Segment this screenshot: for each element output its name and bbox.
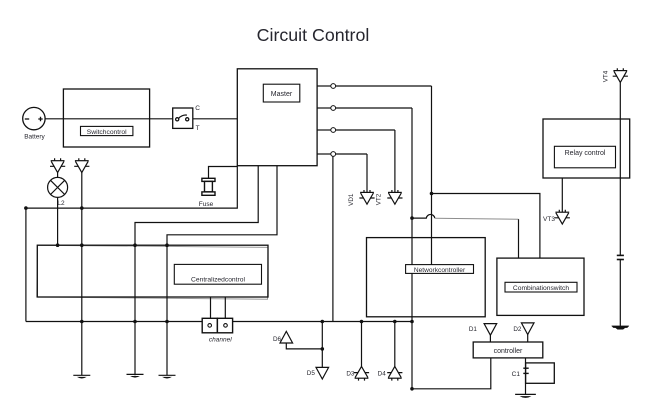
node dot bus D4 (393, 320, 397, 324)
node dot bus 167 (165, 320, 169, 324)
wire bus right section (233, 321, 412, 323)
diode D5 (316, 367, 329, 379)
svg-text:D2: D2 (513, 326, 522, 333)
wire port1 vertical to Networkcontroller (431, 86, 433, 265)
wire diode X2 chain to ground (81, 173, 83, 376)
svg-text:C: C (195, 105, 200, 112)
capacitor on VT4 line (617, 255, 624, 259)
connector channel pins (208, 324, 227, 328)
node dot far left corner (24, 206, 28, 210)
box Centralizedcontrol rotated gray ghost (37, 245, 268, 299)
pin stub port4 (317, 153, 331, 155)
wire master corner down-left to far left drop (26, 166, 237, 322)
wire port2 vertical long through Networkcontroller (411, 108, 413, 389)
svg-text:Networkcontroller: Networkcontroller (414, 267, 466, 274)
label box Centralizedcontrol (174, 264, 261, 284)
diode D1 (484, 324, 497, 336)
box Relay control outer (543, 119, 630, 178)
box Networkcontroller outer (367, 238, 486, 317)
pin stub port3 (317, 129, 331, 131)
switch S1 (173, 108, 193, 128)
wire port1 horizontal (336, 85, 432, 87)
node dot bus 135 (133, 320, 137, 324)
wire fuse top tap (209, 167, 238, 179)
node dot X2 at y208 (80, 206, 84, 210)
wire diode X1 to lamp L2 (57, 173, 59, 178)
wire lamp L2 to Centralizedcontrol top (57, 197, 59, 245)
wire Relay control to VT3 (561, 178, 563, 212)
wire master stub B to ground chain (167, 166, 277, 376)
ground controller (515, 394, 536, 398)
box Switchcontrol outer (63, 89, 149, 147)
wire channel riser right (224, 297, 226, 318)
pin stub port1 (317, 85, 331, 87)
ground left 1 (73, 375, 90, 378)
node dot corner 412 bottom (410, 387, 414, 391)
svg-text:L2: L2 (57, 200, 65, 207)
node dot bus D3 (360, 320, 364, 324)
node dot lamp at box top (56, 243, 60, 247)
svg-text:D4: D4 (378, 371, 387, 378)
svg-text:VD1: VD1 (348, 193, 355, 206)
box controller U5 (473, 342, 543, 358)
wire bottom to controller left pin (412, 358, 491, 389)
svg-text:VT2: VT2 (376, 193, 383, 205)
wire Combinationswitch left riser (518, 219, 520, 258)
svg-text:D1: D1 (469, 326, 478, 333)
svg-text:Battery: Battery (24, 134, 45, 141)
pin circle port2 (331, 106, 336, 111)
connector channel (202, 318, 232, 333)
wire hop segment from junction B (412, 214, 435, 218)
wire switch S1 to Master (193, 118, 238, 120)
svg-text:C1: C1 (512, 371, 521, 378)
wire master stub A to ground chain (135, 166, 258, 376)
node dot bus D5 (321, 320, 325, 324)
node dot bus end 412 (410, 320, 414, 324)
svg-text:VT4: VT4 (603, 70, 610, 82)
pin circle port1 (331, 84, 336, 89)
wire D5 branch (321, 322, 323, 368)
svg-text:D3: D3 (346, 371, 355, 378)
wire D1 stub (489, 335, 491, 342)
label box Switchcontrol (81, 126, 133, 135)
svg-text:channel: channel (209, 337, 232, 344)
svg-text:VT3: VT3 (543, 216, 555, 223)
wire port3 horizontal (336, 129, 395, 131)
wire port4 horizontal (336, 153, 367, 155)
diode VT4 top right (613, 68, 628, 82)
wire D4 branch (394, 322, 396, 367)
pin stub port2 (317, 107, 331, 109)
diode D4 (387, 366, 402, 380)
box Combinationswitch outer (497, 258, 584, 315)
diode VT3 (555, 210, 570, 224)
wire junction A to Combinationswitch right riser (432, 194, 540, 259)
diode X1 above lamp (50, 158, 65, 172)
node dot 167 at box top (165, 243, 169, 247)
diode D2 (521, 323, 534, 335)
wire VT4 down to capacitor (619, 83, 621, 255)
wire gray sloped segment to Combinationswitch left riser (435, 218, 519, 219)
svg-text:Master: Master (271, 91, 293, 98)
node dot junction B (410, 216, 414, 220)
node dot 135 at box top (133, 243, 137, 247)
wire port3 vertical to VT2 (394, 130, 396, 192)
wire capacitor to ground right (619, 260, 621, 326)
svg-text:Centralizedcontrol: Centralizedcontrol (191, 276, 245, 283)
wire channel riser left (210, 297, 212, 318)
box component beside C1 (526, 363, 555, 383)
wire battery to switch S1 (45, 118, 173, 120)
label box Master (263, 84, 300, 102)
box Master outer (237, 69, 317, 166)
wire D2 stub (527, 335, 529, 343)
box Centralizedcontrol outer (37, 245, 268, 297)
svg-text:Switchcontrol: Switchcontrol (87, 129, 127, 136)
pin circle port3 (331, 128, 336, 133)
wire bus left section (26, 321, 202, 323)
capacitor C1 (523, 368, 528, 373)
node dot bus 82 (80, 320, 84, 324)
fuse F1 (202, 178, 215, 195)
svg-text:T: T (196, 125, 200, 132)
svg-text:controller: controller (494, 348, 523, 355)
wire port4 vertical to VD1 (366, 154, 368, 192)
label box Networkcontroller (406, 265, 474, 274)
label box Relay control (554, 146, 615, 168)
svg-text:Circuit Control: Circuit Control (257, 25, 370, 45)
diode VT2 (387, 190, 402, 204)
svg-text:D5: D5 (307, 370, 316, 377)
svg-text:Combinationswitch: Combinationswitch (513, 285, 569, 292)
ground right (612, 326, 629, 329)
wire port2 horizontal (336, 107, 412, 109)
diode VD1 (359, 190, 374, 204)
svg-text:Fuse: Fuse (199, 201, 214, 208)
ground left 2 (127, 374, 144, 377)
wire D6 branch (286, 343, 322, 349)
label box Combinationswitch (505, 282, 577, 292)
diode X2 (74, 158, 89, 172)
node dot D6 tee (321, 347, 325, 351)
diode D6 (280, 331, 293, 343)
wire controller right pin to C1 and ground (525, 358, 527, 395)
svg-text:D6: D6 (273, 336, 282, 343)
node dot junction A (430, 192, 434, 196)
lamp L2 (48, 177, 68, 197)
battery B1 (23, 107, 45, 129)
wire port4 drop to bus (332, 156, 334, 321)
node dot X2 at box top (80, 243, 84, 247)
wire D3 branch (361, 322, 363, 367)
pin circle port4 (331, 152, 336, 157)
ground left 3 (159, 375, 176, 378)
svg-text:Relay control: Relay control (565, 150, 606, 157)
diode D3 (354, 366, 369, 380)
